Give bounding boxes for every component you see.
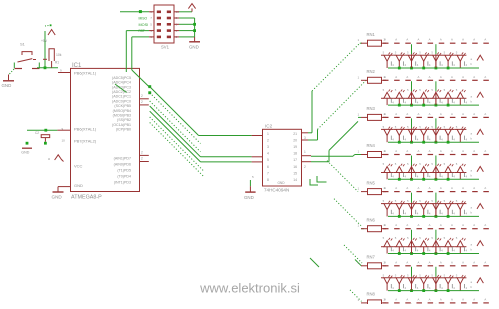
svg-text:A: A <box>484 149 486 153</box>
svg-text:A: A <box>429 149 431 153</box>
svg-text:A: A <box>429 297 431 301</box>
svg-text:A: A <box>462 112 464 116</box>
svg-text:GND: GND <box>52 195 63 200</box>
svg-text:A: A <box>384 149 386 153</box>
svg-text:2: 2 <box>141 100 143 104</box>
svg-text:PB6(XTAL1): PB6(XTAL1) <box>74 127 97 132</box>
svg-text:(ADC4)PC4: (ADC4)PC4 <box>112 81 131 85</box>
svg-text:(ADC2)PC2: (ADC2)PC2 <box>112 90 131 94</box>
svg-text:A: A <box>418 149 420 153</box>
svg-text:A: A <box>451 75 453 79</box>
svg-text:A: A <box>395 223 397 227</box>
svg-text:A: A <box>429 112 431 116</box>
svg-text:3: 3 <box>267 145 269 149</box>
svg-text:2: 2 <box>267 138 269 142</box>
svg-text:A: A <box>484 38 486 42</box>
svg-text:MOSI: MOSI <box>139 23 149 27</box>
svg-text:20: 20 <box>293 138 297 142</box>
svg-text:(ADC1)PC1: (ADC1)PC1 <box>112 95 131 99</box>
svg-text:A: A <box>451 223 453 227</box>
svg-text:(MISO)PB4: (MISO)PB4 <box>113 109 131 113</box>
svg-text:A: A <box>418 75 420 79</box>
svg-text:A: A <box>440 149 442 153</box>
svg-text:A: A <box>406 112 408 116</box>
svg-text:GND: GND <box>244 195 254 200</box>
svg-text:A: A <box>462 38 464 42</box>
svg-text:A: A <box>462 223 464 227</box>
svg-text:A: A <box>395 75 397 79</box>
svg-text:A: A <box>418 38 420 42</box>
svg-text:RN7: RN7 <box>367 255 376 260</box>
svg-text:SV1: SV1 <box>161 45 170 50</box>
svg-text:2: 2 <box>141 157 143 161</box>
svg-text:A: A <box>473 149 475 153</box>
svg-text:74HC4094N: 74HC4094N <box>264 187 289 192</box>
svg-text:PB6(XTAL1): PB6(XTAL1) <box>74 71 97 76</box>
svg-text:A: A <box>395 112 397 116</box>
svg-text:A: A <box>440 75 442 79</box>
svg-text:A: A <box>462 297 464 301</box>
svg-text:A: A <box>440 260 442 264</box>
svg-text:RN8: RN8 <box>367 292 376 297</box>
svg-text:A: A <box>429 223 431 227</box>
svg-text:A: A <box>406 223 408 227</box>
svg-text:A: A <box>473 112 475 116</box>
svg-text:A: A <box>451 186 453 190</box>
svg-text:A: A <box>406 38 408 42</box>
svg-text:1: 1 <box>267 132 269 136</box>
svg-text:A: A <box>418 297 420 301</box>
svg-text:(T1)PD5: (T1)PD5 <box>117 168 131 172</box>
svg-text:A: A <box>418 260 420 264</box>
svg-text:(MOSI)PB3: (MOSI)PB3 <box>113 113 131 117</box>
svg-text:A: A <box>384 112 386 116</box>
svg-text:19: 19 <box>293 145 297 149</box>
svg-text:(OC1A)PB1: (OC1A)PB1 <box>112 123 131 127</box>
svg-text:A: A <box>462 260 464 264</box>
svg-text:A: A <box>395 297 397 301</box>
svg-text:A: A <box>451 149 453 153</box>
svg-text:A: A <box>484 260 486 264</box>
svg-text:GND: GND <box>74 183 83 188</box>
svg-text:(ADC5)PC5: (ADC5)PC5 <box>112 76 131 80</box>
svg-text:(SS)PB2: (SS)PB2 <box>117 118 131 122</box>
svg-text:1: 1 <box>304 150 306 154</box>
svg-text:A: A <box>429 75 431 79</box>
svg-text:6: 6 <box>267 165 269 169</box>
svg-text:2: 2 <box>141 94 143 98</box>
svg-text:GND: GND <box>189 45 199 50</box>
svg-text:A: A <box>429 38 431 42</box>
svg-text:2: 2 <box>304 165 306 169</box>
svg-text:a: a <box>48 157 50 161</box>
svg-text:A: A <box>406 260 408 264</box>
svg-text:3: 3 <box>304 136 306 140</box>
svg-text:A: A <box>473 297 475 301</box>
svg-text:A: A <box>473 223 475 227</box>
svg-text:RN6: RN6 <box>367 217 376 222</box>
svg-text:16: 16 <box>293 165 297 169</box>
svg-text:A: A <box>395 186 397 190</box>
svg-text:21: 21 <box>293 132 297 136</box>
svg-text:A: A <box>384 260 386 264</box>
svg-text:A: A <box>395 38 397 42</box>
svg-text:A: A <box>484 75 486 79</box>
svg-text:5: 5 <box>267 158 269 162</box>
svg-text:A: A <box>451 260 453 264</box>
svg-text:(SCK)PB5: (SCK)PB5 <box>114 104 131 108</box>
svg-text:VCC: VCC <box>74 164 83 169</box>
svg-text:A: A <box>395 260 397 264</box>
svg-text:+5V: +5V <box>41 39 48 43</box>
svg-text:A: A <box>406 149 408 153</box>
svg-text:A: A <box>418 186 420 190</box>
svg-text:(INT1)PD3: (INT1)PD3 <box>114 180 131 184</box>
svg-text:A: A <box>484 186 486 190</box>
svg-text:A: A <box>484 112 486 116</box>
svg-text:A: A <box>384 75 386 79</box>
svg-text:S1: S1 <box>20 42 26 47</box>
svg-text:2: 2 <box>141 151 143 155</box>
svg-text:A: A <box>451 38 453 42</box>
svg-text:10k: 10k <box>56 53 62 57</box>
svg-text:A: A <box>440 112 442 116</box>
svg-text:(ADC0)PC0: (ADC0)PC0 <box>112 99 131 103</box>
svg-text:A: A <box>418 112 420 116</box>
svg-text:A: A <box>440 297 442 301</box>
svg-text:A: A <box>473 75 475 79</box>
svg-text:A: A <box>406 186 408 190</box>
svg-text:17: 17 <box>293 158 297 162</box>
svg-text:RST: RST <box>139 29 145 33</box>
svg-text:A: A <box>384 223 386 227</box>
svg-text:A: A <box>440 186 442 190</box>
svg-text:IC1: IC1 <box>72 63 82 69</box>
svg-text:10: 10 <box>62 139 66 143</box>
svg-text:A: A <box>473 38 475 42</box>
svg-text:A: A <box>429 260 431 264</box>
svg-text:7: 7 <box>267 171 269 175</box>
svg-text:A: A <box>462 75 464 79</box>
svg-text:A: A <box>473 186 475 190</box>
svg-text:A: A <box>451 297 453 301</box>
svg-text:A: A <box>384 297 386 301</box>
svg-text:A: A <box>406 75 408 79</box>
svg-text:A: A <box>418 223 420 227</box>
svg-text:A: A <box>484 223 486 227</box>
svg-text:A: A <box>440 38 442 42</box>
svg-text:A: A <box>462 149 464 153</box>
svg-text:RN3: RN3 <box>367 106 376 111</box>
svg-text:GND: GND <box>277 181 285 185</box>
svg-text:RN4: RN4 <box>367 143 376 148</box>
svg-text:www.elektronik.si: www.elektronik.si <box>199 281 300 296</box>
svg-text:18: 18 <box>293 152 297 156</box>
svg-text:A: A <box>384 186 386 190</box>
svg-text:A: A <box>451 112 453 116</box>
svg-text:RN5: RN5 <box>367 180 376 185</box>
svg-text:ATMEGA8-P: ATMEGA8-P <box>71 195 102 201</box>
svg-text:A: A <box>384 38 386 42</box>
svg-text:A: A <box>473 260 475 264</box>
svg-text:(AIN0)PD6: (AIN0)PD6 <box>114 162 131 166</box>
svg-text:MISO: MISO <box>139 17 148 21</box>
svg-text:RN1: RN1 <box>367 32 376 37</box>
svg-text:A: A <box>462 186 464 190</box>
svg-text:A: A <box>484 297 486 301</box>
svg-text:A: A <box>395 149 397 153</box>
svg-text:A: A <box>429 186 431 190</box>
svg-text:RN2: RN2 <box>367 69 376 74</box>
svg-text:15: 15 <box>293 171 297 175</box>
svg-text:GND: GND <box>21 151 29 155</box>
svg-text:A: A <box>406 297 408 301</box>
svg-text:(ICP)PB0: (ICP)PB0 <box>116 127 131 131</box>
svg-text:R1: R1 <box>55 61 59 65</box>
svg-text:A: A <box>440 223 442 227</box>
svg-text:(AIN1)PD7: (AIN1)PD7 <box>114 156 131 160</box>
svg-text:8: 8 <box>267 178 269 182</box>
svg-text:(T0)PD4: (T0)PD4 <box>117 174 131 178</box>
svg-text:4: 4 <box>267 152 269 156</box>
svg-text:PB7(XTAL2): PB7(XTAL2) <box>74 139 97 144</box>
svg-text:C2: C2 <box>35 131 39 135</box>
svg-text:IC2: IC2 <box>265 123 273 128</box>
svg-text:GND: GND <box>2 83 12 88</box>
svg-text:14: 14 <box>293 178 297 182</box>
